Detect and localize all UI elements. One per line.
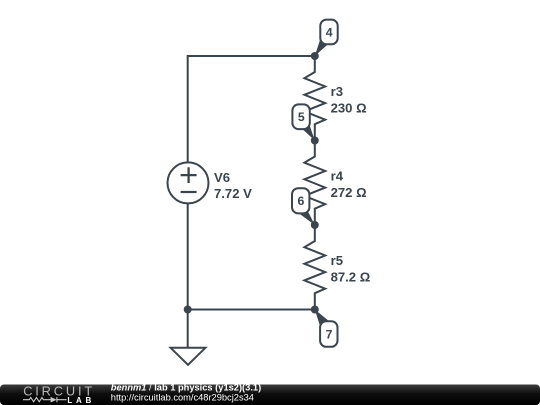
svg-text:r4: r4	[331, 169, 344, 184]
svg-text:LAB: LAB	[67, 396, 95, 405]
svg-text:7.72 V: 7.72 V	[214, 186, 252, 201]
svg-text:r5: r5	[331, 253, 343, 268]
svg-text:r3: r3	[331, 84, 343, 99]
svg-text:4: 4	[326, 25, 333, 39]
svg-text:272 Ω: 272 Ω	[331, 185, 367, 200]
svg-text:bennm1 / lab 1 physics (y1s2)(: bennm1 / lab 1 physics (y1s2)(3.1)	[111, 382, 261, 392]
svg-text:6: 6	[297, 194, 304, 208]
svg-text:http://circuitlab.com/c48r29bc: http://circuitlab.com/c48r29bcj2s34	[111, 392, 254, 402]
svg-text:7: 7	[326, 328, 333, 342]
svg-text:87.2 Ω: 87.2 Ω	[331, 270, 371, 285]
svg-text:V6: V6	[214, 170, 230, 185]
svg-text:5: 5	[298, 110, 305, 124]
svg-text:230 Ω: 230 Ω	[331, 101, 367, 116]
